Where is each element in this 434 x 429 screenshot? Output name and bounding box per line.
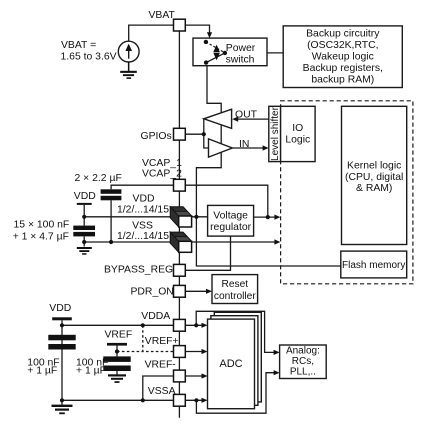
svg-text:switch: switch xyxy=(226,54,255,65)
junction dot lower ground xyxy=(60,398,64,402)
svg-text:VDDA: VDDA xyxy=(141,311,170,322)
wire VDD supply to VDDA pin xyxy=(62,320,173,325)
arrow VSSA into ADC xyxy=(202,398,208,403)
ADC middle box xyxy=(211,316,258,406)
svg-text:VBAT: VBAT xyxy=(149,10,176,21)
ADC back box xyxy=(214,312,261,402)
arrow VREF- into ADC xyxy=(202,373,208,378)
ground under VREF cap xyxy=(108,374,126,383)
wire lower VDD cap leads xyxy=(61,325,63,404)
VREF supply bar xyxy=(107,343,127,346)
pin VCAP_1 VCAP_2 xyxy=(174,179,186,191)
current source VBAT circle xyxy=(118,41,139,62)
svg-text:Backup circuitry: Backup circuitry xyxy=(306,29,380,40)
wire VSS ground rail to kernel arrow xyxy=(84,241,277,243)
arrow into power switch xyxy=(207,32,212,38)
svg-text:PLL,..: PLL,.. xyxy=(290,366,316,377)
junction dot ground rail left xyxy=(82,240,86,244)
svg-text:1/2/...14/15: 1/2/...14/15 xyxy=(117,231,169,242)
flash memory box xyxy=(341,251,407,278)
svg-text:VREF+: VREF+ xyxy=(145,336,179,347)
pin VSS 3D cube xyxy=(170,232,191,252)
wire PDR_ON to reset controller xyxy=(186,290,209,292)
arrow VDDA into analog blocks xyxy=(274,350,280,355)
arrow regulator output into kernel domain xyxy=(274,215,280,220)
svg-text:IO: IO xyxy=(292,123,303,134)
svg-text:ADC: ADC xyxy=(219,358,242,370)
svg-text:15 × 100 nF: 15 × 100 nF xyxy=(14,219,70,230)
wire VDD rail to voltage regulator xyxy=(84,216,207,218)
svg-text:Kernel logic: Kernel logic xyxy=(347,161,401,172)
svg-text:Level shifter: Level shifter xyxy=(270,106,281,161)
power switch contact dots and levers xyxy=(204,40,227,65)
svg-text:Backup registers,: Backup registers, xyxy=(303,63,383,74)
arrow VDDA into ADC xyxy=(202,323,208,328)
arrow out of level shifter into OUT buffer xyxy=(232,117,238,122)
capacitor 15x100nF xyxy=(73,226,95,237)
junction dot VDD rail left xyxy=(82,215,86,219)
svg-text:Flash memory: Flash memory xyxy=(342,260,405,271)
junction dot lower VDD supply xyxy=(60,323,64,327)
svg-text:2 × 2.2 µF: 2 × 2.2 µF xyxy=(75,173,122,184)
wire power switch to backup circuitry xyxy=(225,52,283,54)
wire 100nF cap lower lead xyxy=(83,236,85,246)
arrow from IN buffer into level shifter xyxy=(263,145,269,150)
svg-text:+ 1 µF: + 1 µF xyxy=(76,366,106,377)
ground under 100nF rail xyxy=(77,247,92,255)
svg-text:(OSC32K,RTC,: (OSC32K,RTC, xyxy=(307,40,378,51)
IO logic box xyxy=(281,106,316,161)
pin VDD 3D cube xyxy=(170,207,191,227)
capacitor 2x2.2uF xyxy=(101,189,122,200)
wire GPIOs pin to buffer junction xyxy=(186,133,204,135)
svg-text:VREF-: VREF- xyxy=(145,359,176,370)
pin VDDA xyxy=(174,319,186,331)
pin VSSA xyxy=(174,394,186,406)
current source arrow xyxy=(125,44,132,59)
svg-text:BYPASS_REG: BYPASS_REG xyxy=(104,264,173,275)
wire VREF- pin to ADC xyxy=(186,375,205,377)
wire voltage regulator output to kernel xyxy=(254,216,278,218)
VDD supply bar lower xyxy=(52,317,72,320)
ADC front box xyxy=(208,319,255,409)
svg-text:1/2/...14/15: 1/2/...14/15 xyxy=(117,205,169,216)
svg-text:PDR_ON: PDR_ON xyxy=(131,287,174,298)
capacitor 100nF 1uF VREF xyxy=(103,356,130,371)
arrow VREF+ into ADC xyxy=(202,349,208,354)
OUT buffer triangle xyxy=(204,109,232,128)
wire dashed VREF cap to VREF+ xyxy=(117,351,143,353)
reset controller box xyxy=(212,275,258,304)
wire dashed VDDA to VREF+ xyxy=(143,325,173,351)
wire junction up to OUT buffer tip xyxy=(203,119,205,134)
svg-text:VBAT =: VBAT = xyxy=(61,40,96,51)
wire VSSA under ADC to analog blocks xyxy=(196,373,276,414)
wire main pin column xyxy=(178,31,180,418)
svg-text:Reset: Reset xyxy=(221,279,248,290)
svg-text:(CPU, digital: (CPU, digital xyxy=(345,172,403,183)
wire VSSA pin to ADC xyxy=(186,399,205,401)
VDD supply bar upper xyxy=(77,203,92,205)
wire 2.2uF caps to VCAP pins xyxy=(111,185,173,189)
kernel logic box xyxy=(342,106,407,244)
svg-text:VCAP_1: VCAP_1 xyxy=(142,158,182,169)
junction dot regulator output VCAP xyxy=(266,215,270,219)
svg-text:OUT: OUT xyxy=(235,110,258,121)
svg-text:VDD: VDD xyxy=(49,303,71,314)
svg-text:VDD: VDD xyxy=(133,194,155,205)
svg-text:controller: controller xyxy=(214,291,257,302)
svg-text:Logic: Logic xyxy=(285,135,310,146)
wire VDDA pin to ADC xyxy=(186,324,205,326)
pin VREF+ xyxy=(174,346,186,358)
junction dot VDD node xyxy=(194,215,198,219)
svg-text:& RAM): & RAM) xyxy=(356,183,392,194)
pin PDR_ON xyxy=(174,285,186,297)
junction dot VREF cap xyxy=(115,349,119,353)
IN buffer triangle xyxy=(209,139,233,157)
wire 2.2uF cap lower lead xyxy=(110,200,112,242)
wire VREF supply lead xyxy=(116,346,118,357)
wire VBAT pin to power switch input xyxy=(186,25,210,33)
wire VREF- pin to VSSA rail xyxy=(143,376,173,400)
wire power switch output through OUT/IN buffers, VDD node, to flash memory xyxy=(196,63,340,266)
pin GPIOs xyxy=(174,128,186,140)
analog blocks box xyxy=(280,345,327,379)
junction dot GPIO buffers xyxy=(202,132,206,136)
arrow VSS into kernel domain xyxy=(274,239,280,244)
wire VREF+ pin to ADC xyxy=(186,351,205,353)
svg-text:Wakeup logic: Wakeup logic xyxy=(312,52,374,63)
wire voltage regulator to BYPASS_REG pin xyxy=(186,236,231,270)
junction dot VSSA ADC branch xyxy=(194,398,198,402)
backup circuitry box xyxy=(283,26,402,88)
svg-text:VDD: VDD xyxy=(74,191,96,202)
wire VCAP pin to regulator output node xyxy=(186,185,268,217)
junction dot VDDA ADC branch xyxy=(194,323,198,327)
wire junction down to IN buffer input xyxy=(204,134,209,148)
svg-text:regulator: regulator xyxy=(210,222,252,233)
wire VDD supply lead xyxy=(83,205,85,226)
svg-text:Voltage: Voltage xyxy=(213,210,248,221)
ground under lower VDD cap xyxy=(52,405,73,415)
svg-text:backup RAM): backup RAM) xyxy=(311,75,374,86)
svg-text:RCs,: RCs, xyxy=(292,356,314,367)
wire VDDA over ADC to analog blocks xyxy=(196,311,276,352)
svg-text:Power: Power xyxy=(226,43,256,54)
voltage regulator box xyxy=(208,205,254,236)
power switch box xyxy=(193,38,267,66)
arrow VSSA into analog blocks xyxy=(274,370,280,375)
junction dot VDDA VREF branch xyxy=(141,323,145,327)
wire IN buffer to level shifter xyxy=(232,147,265,149)
pin VBAT xyxy=(174,19,186,31)
capacitor 100nF 1uF VDD xyxy=(48,335,75,350)
svg-text:+ 1 × 4.7 µF: + 1 × 4.7 µF xyxy=(13,232,69,243)
dashed V12 domain box xyxy=(281,101,413,284)
svg-text:VSS: VSS xyxy=(132,220,153,231)
ground under VBAT source xyxy=(120,62,137,79)
wire VREF cap lower lead xyxy=(116,371,118,375)
pin BYPASS_REG xyxy=(174,264,186,276)
level shifter box xyxy=(269,106,281,161)
wire VBAT source to VBAT pin xyxy=(129,25,174,41)
svg-text:VSSA: VSSA xyxy=(148,386,176,397)
junction dot 2.2uF ground xyxy=(109,240,113,244)
svg-text:VCAP_2: VCAP_2 xyxy=(142,169,182,180)
svg-text:VREF: VREF xyxy=(105,330,133,341)
wire level shifter to OUT buffer xyxy=(234,118,269,120)
svg-text:+ 1 µF: + 1 µF xyxy=(27,366,57,377)
pin VREF- xyxy=(174,370,186,382)
svg-text:IN: IN xyxy=(239,139,249,150)
svg-text:1.65 to 3.6V: 1.65 to 3.6V xyxy=(61,52,117,63)
junction dot VREF- VSSA rail xyxy=(141,398,145,402)
arrow PDR_ON into reset controller xyxy=(206,289,212,294)
wire VSSA ground rail xyxy=(62,399,173,401)
svg-text:GPIOs: GPIOs xyxy=(141,131,172,142)
svg-text:Analog:: Analog: xyxy=(286,346,320,357)
